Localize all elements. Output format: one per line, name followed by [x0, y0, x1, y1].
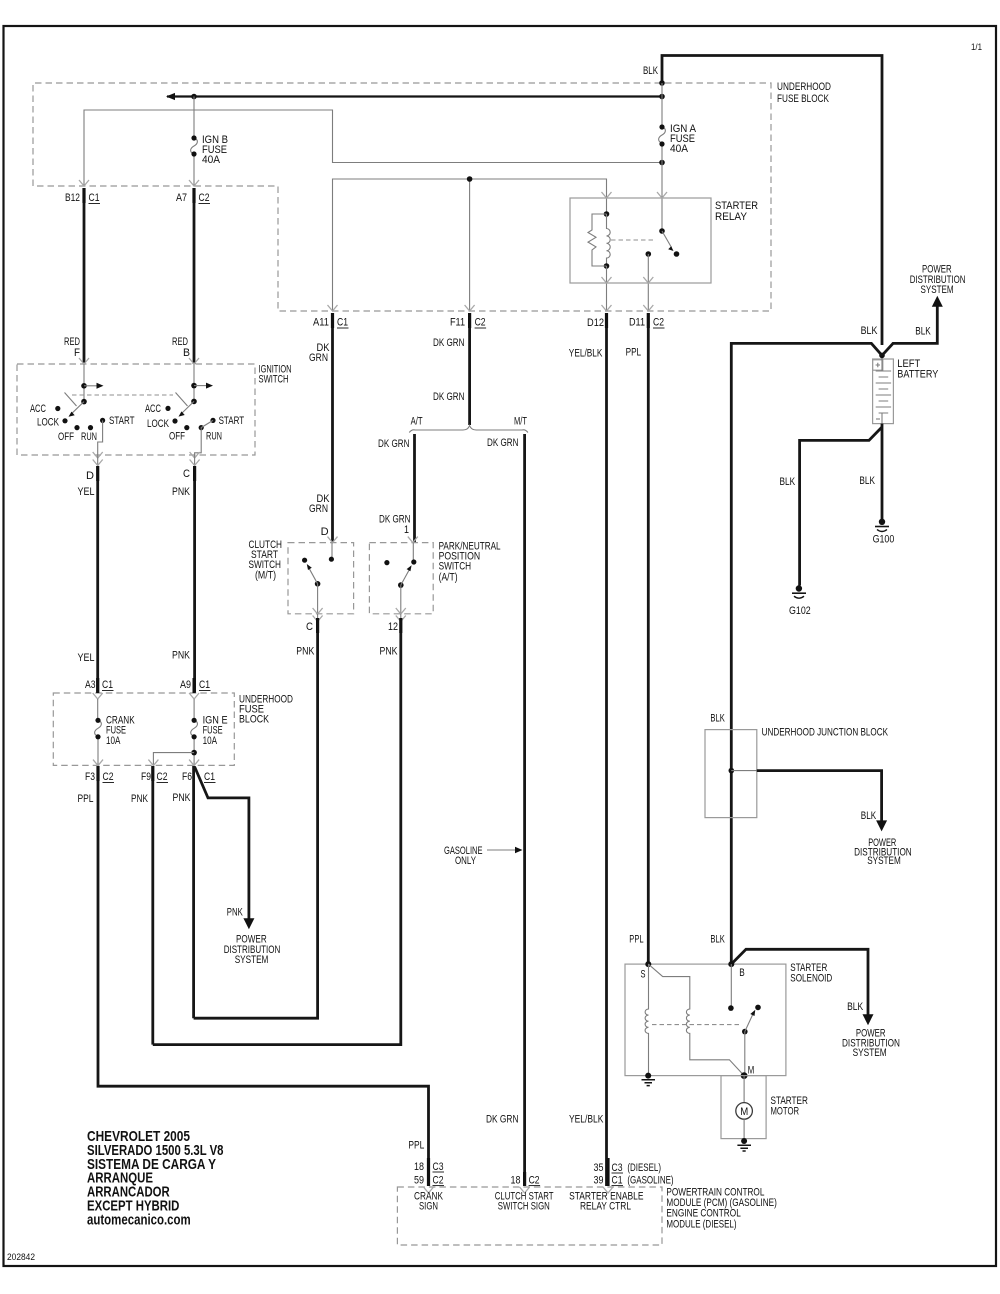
- node IGN A output junction: [659, 160, 665, 166]
- pole2 contact ACC: [165, 406, 170, 411]
- wire BLK battery negative branch to G102: [800, 427, 882, 586]
- chevron arrows A11 F11 at fuse block bottom edge: [328, 305, 475, 311]
- svg-text:(A/T): (A/T): [439, 572, 458, 584]
- pole2 START to RUN link and output wire to C: [195, 420, 213, 455]
- pole1 wiper blade to LOCK: [69, 402, 85, 417]
- ignition switch pole 1 input wire: [83, 364, 85, 402]
- svg-text:BLK: BLK: [643, 65, 658, 77]
- wire stub C clutch: [313, 614, 323, 622]
- wire DK GRN A/T branch to PNP switch: [413, 434, 416, 543]
- wire BLK junction block to solenoid B (diagonal): [731, 949, 873, 1025]
- label A/T: [411, 415, 423, 427]
- svg-text:ONLY: ONLY: [455, 855, 476, 867]
- solenoid ground at coil: [642, 1073, 656, 1086]
- label BLK (junction block feed): [710, 713, 725, 725]
- chevron out of PNP switch: [396, 608, 406, 614]
- chevrons into PCM: [424, 1187, 614, 1193]
- PNP switch input stub and contact: [411, 543, 416, 565]
- svg-text:D: D: [86, 470, 94, 482]
- wire BLK junction block to power distribution: [731, 771, 887, 832]
- svg-text:G102: G102: [789, 605, 811, 617]
- svg-text:LOCK: LOCK: [147, 418, 169, 430]
- svg-text:BLK: BLK: [710, 933, 725, 945]
- fuse IGN B 40A: [191, 97, 198, 187]
- svg-text:PNK: PNK: [227, 907, 243, 919]
- svg-text:A11: A11: [313, 317, 329, 329]
- connector C clutch: [306, 618, 318, 633]
- label PARK/NEUTRAL POSITION SWITCH (A/T): [439, 541, 501, 584]
- svg-text:40A: 40A: [202, 154, 221, 166]
- svg-text:C2: C2: [157, 771, 168, 783]
- svg-text:F6: F6: [182, 771, 192, 783]
- wire BLK battery to junction block (left horizontal): [731, 343, 882, 964]
- doc number 202842: [7, 1252, 35, 1263]
- label IGN E FUSE 10A: [203, 715, 228, 748]
- svg-text:A3: A3: [85, 679, 96, 691]
- fuse IGN A 40A: [659, 83, 666, 198]
- label YEL (upper): [78, 486, 95, 498]
- svg-text:BLK: BLK: [710, 713, 725, 725]
- label STARTER SOLENOID: [790, 962, 832, 985]
- starter motor ground: [737, 1138, 751, 1151]
- starter motor box: [721, 1076, 766, 1139]
- svg-text:A/T: A/T: [411, 415, 423, 427]
- node F11 branch junction: [467, 176, 473, 182]
- chevron arrows at fuse block bottom edge D12 D11: [602, 305, 654, 311]
- svg-text:C3: C3: [433, 1161, 444, 1173]
- svg-text:UNDERHOOD JUNCTION BLOCK: UNDERHOOD JUNCTION BLOCK: [762, 726, 889, 738]
- svg-text:B12: B12: [65, 192, 80, 204]
- svg-text:BLK: BLK: [780, 476, 796, 488]
- pole1 contact RUN: [88, 425, 93, 430]
- wire PPL D11 to starter solenoid S: [647, 328, 650, 964]
- label PNK (lower): [172, 650, 191, 662]
- svg-text:DK GRN: DK GRN: [487, 437, 519, 449]
- svg-text:PNK: PNK: [172, 486, 191, 498]
- wire PNK F6 down (to clutch C path): [192, 766, 195, 1018]
- svg-text:C2: C2: [653, 317, 664, 329]
- svg-text:RELAY: RELAY: [715, 211, 748, 223]
- svg-text:12: 12: [388, 621, 398, 633]
- chevron into clutch switch: [328, 537, 338, 543]
- svg-text:SYSTEM: SYSTEM: [853, 1047, 887, 1059]
- connector 12 PNP: [388, 618, 401, 633]
- label RED (left): [64, 336, 80, 348]
- connector F6 C1: [182, 771, 216, 783]
- label YEL (lower): [78, 652, 95, 664]
- wire RED A7 to ignition switch: [193, 203, 196, 364]
- svg-text:M/T: M/T: [514, 415, 527, 427]
- svg-text:M: M: [748, 1065, 755, 1077]
- svg-text:MOTOR: MOTOR: [771, 1106, 800, 1118]
- solenoid pull-in coil L1: [645, 964, 648, 1076]
- svg-text:BLK: BLK: [915, 325, 931, 337]
- svg-text:202842: 202842: [7, 1252, 35, 1263]
- svg-text:F: F: [74, 347, 80, 359]
- solenoid mechanical link dashed: [652, 1024, 741, 1026]
- wire relay coil feed (gray) A11/F11 branch: [333, 179, 607, 311]
- svg-text:SOLENOID: SOLENOID: [790, 973, 832, 985]
- svg-text:BATTERY: BATTERY: [897, 369, 939, 381]
- node junction block tap: [729, 768, 735, 774]
- pole2 labels ACC LOCK OFF RUN START: [145, 403, 244, 443]
- chevron arrows at relay pins: [602, 192, 668, 283]
- svg-text:PNK: PNK: [296, 646, 315, 658]
- wire stub D: [93, 455, 103, 466]
- svg-text:SWITCH SIGN: SWITCH SIGN: [498, 1201, 550, 1213]
- svg-text:SWITCH: SWITCH: [259, 374, 289, 386]
- connector F3 C2: [85, 766, 114, 783]
- svg-text:SYSTEM: SYSTEM: [235, 954, 269, 966]
- svg-text:PNK: PNK: [131, 793, 148, 805]
- label BLK (B arrow): [847, 1001, 864, 1013]
- wire bus to ignition switch feed (black, with left arrow): [166, 93, 662, 100]
- svg-text:10A: 10A: [106, 735, 121, 747]
- connector B12 C1: [65, 188, 100, 204]
- svg-text:40A: 40A: [670, 143, 689, 155]
- svg-text:ACC: ACC: [30, 403, 46, 415]
- svg-text:C: C: [306, 621, 313, 633]
- pole2 contact START: [210, 418, 215, 423]
- svg-text:PPL: PPL: [408, 1140, 424, 1152]
- relay switch pin wire (into box): [661, 198, 663, 231]
- svg-text:PPL: PPL: [629, 933, 643, 945]
- wire stub C: [190, 455, 200, 466]
- pole1 contact OFF: [74, 425, 79, 430]
- svg-text:YEL: YEL: [78, 486, 95, 498]
- svg-text:BLOCK: BLOCK: [239, 714, 270, 726]
- PNP switch common and blade: [398, 565, 412, 614]
- svg-text:C1: C1: [89, 192, 100, 204]
- wire PNK F6 branch to power distribution arrow: [195, 767, 255, 930]
- svg-text:YEL/BLK: YEL/BLK: [569, 347, 603, 359]
- node pole1 wiper pivot: [81, 399, 87, 405]
- svg-text:C: C: [183, 468, 190, 480]
- svg-text:A9: A9: [180, 679, 191, 691]
- svg-text:F3: F3: [85, 771, 95, 783]
- connector 18 C3 / 59 C2 (crank sign): [414, 1158, 444, 1187]
- svg-text:DK GRN: DK GRN: [433, 337, 465, 349]
- starter relay U1 box: [570, 198, 711, 283]
- svg-text:PNK: PNK: [173, 792, 192, 804]
- svg-text:C1: C1: [204, 771, 215, 783]
- pin F: [74, 347, 80, 359]
- svg-text:SYSTEM: SYSTEM: [921, 284, 954, 296]
- label IGNITION SWITCH: [259, 364, 292, 386]
- label UNDERHOOD FUSE BLOCK (lower): [239, 693, 293, 725]
- svg-text:DK GRN: DK GRN: [433, 391, 465, 403]
- label BLK (top feed): [643, 65, 658, 77]
- node pole1 feed dot with right arrow: [81, 383, 103, 389]
- relay coil output wire to D12: [606, 266, 608, 311]
- pole2 contact LOCK: [172, 418, 177, 423]
- connector A9 C1: [180, 678, 211, 693]
- connector F9 C2: [141, 766, 168, 783]
- wire BLK battery to power distribution (up arrow): [882, 296, 943, 356]
- connector F11 C2: [450, 313, 486, 329]
- svg-text:1/1: 1/1: [971, 42, 982, 53]
- label BLK (battery right): [915, 325, 931, 337]
- svg-text:PNK: PNK: [172, 650, 191, 662]
- wire BLK battery feed to fuse block (top): [662, 56, 882, 346]
- label BLK (G102 wire): [780, 476, 796, 488]
- clutch switch open contact: [302, 558, 307, 563]
- label DK GRN (M/T): [487, 437, 519, 449]
- label UNDERHOOD FUSE BLOCK (top): [777, 81, 831, 105]
- label DK GRN (F11 lower): [433, 391, 465, 403]
- label YEL/BLK (upper): [569, 347, 603, 359]
- svg-text:RUN: RUN: [206, 431, 222, 443]
- label IGN A FUSE 40A: [670, 123, 697, 155]
- svg-text:YEL: YEL: [78, 652, 95, 664]
- svg-text:BLK: BLK: [861, 810, 877, 822]
- svg-text:YEL/BLK: YEL/BLK: [569, 1113, 604, 1125]
- wire PNK C to A9: [193, 481, 196, 693]
- solenoid switch contacts: [728, 964, 761, 1076]
- svg-text:C2: C2: [475, 317, 486, 329]
- node solenoid M terminal: [741, 1065, 755, 1080]
- relay coil pin wire (into box): [606, 198, 608, 214]
- svg-text:PNK: PNK: [380, 646, 399, 658]
- svg-text:RUN: RUN: [81, 431, 97, 443]
- park/neutral position switch dashed box: [369, 543, 433, 614]
- pole2 wiper blade to LOCK: [179, 401, 195, 416]
- svg-text:DK GRN: DK GRN: [486, 1113, 519, 1125]
- pin 1 PNP switch: [404, 524, 409, 536]
- label BLK (battery left): [861, 325, 878, 337]
- chevron arrows into ignition switch F B: [79, 358, 199, 364]
- label DK GRN (A/T): [378, 438, 410, 450]
- svg-text:C2: C2: [199, 192, 210, 204]
- label DK GRN (A11 lower, two lines): [309, 493, 330, 515]
- svg-text:C2: C2: [433, 1175, 444, 1187]
- svg-text:OFF: OFF: [58, 431, 74, 443]
- clutch switch common and blade: [307, 564, 321, 614]
- label POWER DISTRIBUTION SYSTEM (pnk arrow): [224, 934, 281, 967]
- PCM dashed box: [397, 1187, 662, 1245]
- svg-text:ACC: ACC: [145, 403, 161, 415]
- ground G102: [789, 585, 811, 617]
- svg-text:(DIESEL): (DIESEL): [627, 1162, 661, 1174]
- node battery positive terminal: [879, 353, 885, 359]
- chevron out of clutch switch: [313, 608, 323, 614]
- label PPL (upper): [626, 347, 642, 359]
- label UNDERHOOD JUNCTION BLOCK: [762, 726, 889, 738]
- svg-text:C1: C1: [199, 679, 210, 691]
- connector A11 C1: [313, 313, 349, 329]
- ignition switch S1 dashed box: [17, 364, 255, 455]
- mechanical link between poles (dashed): [65, 393, 188, 407]
- underhood junction block box: [705, 730, 757, 818]
- svg-text:FUSE BLOCK: FUSE BLOCK: [777, 93, 829, 105]
- relay resistor (parallel): [588, 214, 607, 266]
- label PNK (upper): [172, 486, 191, 498]
- node IGN A column junction at y96.5: [659, 94, 665, 100]
- label POWER DISTRIBUTION SYSTEM (battery top): [910, 264, 966, 296]
- node pole2 wiper pivot: [191, 399, 197, 405]
- chevron arrows out of ignition switch D C: [93, 452, 200, 458]
- connector D: [86, 466, 98, 482]
- svg-text:C2: C2: [103, 771, 114, 783]
- node solenoid S terminal: [641, 961, 652, 980]
- svg-text:D12: D12: [587, 317, 604, 329]
- connector 35 C3 (DIESEL) / 39 C1 (GASOLINE): [594, 1158, 674, 1187]
- node pole2 feed dot with right arrow: [191, 383, 213, 389]
- connector D12: [587, 313, 607, 329]
- svg-text:D: D: [321, 526, 329, 538]
- label M/T: [514, 415, 527, 427]
- wire PNK PNP 12 down: [153, 633, 401, 1045]
- svg-text:OFF: OFF: [169, 431, 185, 443]
- svg-text:D11: D11: [629, 317, 645, 329]
- svg-text:RELAY CTRL: RELAY CTRL: [580, 1201, 631, 1213]
- svg-text:BLK: BLK: [859, 475, 875, 487]
- node IGN E output junction and F9 branch: [153, 750, 197, 766]
- connector 18 C2 (clutch start sign): [511, 1172, 541, 1187]
- svg-text:59: 59: [414, 1175, 424, 1187]
- label CLUTCH START SWITCH SIGN: [495, 1191, 554, 1213]
- relay coil (inductor): [604, 211, 611, 269]
- svg-text:39: 39: [594, 1175, 604, 1187]
- svg-text:SYSTEM: SYSTEM: [867, 855, 901, 867]
- svg-text:MODULE (DIESEL): MODULE (DIESEL): [666, 1218, 736, 1230]
- chevron arrows B12 A7 at fuse block lower edge: [79, 180, 199, 186]
- wire DK GRN M/T branch to PCM: [523, 434, 526, 1186]
- label POWER DISTRIBUTION SYSTEM (B arrow): [842, 1028, 900, 1059]
- svg-text:M: M: [740, 1106, 748, 1118]
- clutch start switch dashed box: [288, 543, 354, 614]
- label PNK (arrow): [227, 907, 243, 919]
- label PNK (PNP 12): [380, 646, 399, 658]
- svg-text:GRN: GRN: [309, 352, 328, 364]
- wire YEL/BLK D12 to PCM: [605, 328, 608, 1186]
- svg-text:18: 18: [511, 1175, 521, 1187]
- page number 1/1: [971, 42, 982, 53]
- starter motor M1: [736, 1076, 753, 1139]
- label LEFT BATTERY: [897, 358, 939, 381]
- wire PNK F9 down: [151, 781, 154, 1045]
- pole1 contact LOCK: [62, 418, 67, 423]
- label PPL (crank sign wire): [408, 1140, 424, 1152]
- ignition switch pole 2 input wire: [193, 364, 195, 401]
- label DK GRN (A11 upper, two lines): [309, 342, 330, 364]
- svg-text:1: 1: [404, 524, 409, 536]
- label CLUTCH START SWITCH (M/T): [249, 539, 283, 582]
- node IGN B top junction: [191, 94, 197, 100]
- title block: [87, 1128, 224, 1228]
- svg-text:S: S: [641, 969, 646, 981]
- svg-text:PPL: PPL: [78, 793, 94, 805]
- svg-text:C1: C1: [612, 1175, 623, 1187]
- label PNK (F9): [131, 793, 148, 805]
- relay mechanical link (dashed): [611, 239, 655, 241]
- underhood fuse block (top) dashed outline: [33, 83, 771, 311]
- split A/T M/T (thin fanout): [409, 426, 528, 433]
- svg-text:(M/T): (M/T): [255, 570, 276, 582]
- label PPL (solenoid S): [629, 933, 643, 945]
- label STARTER ENABLE RELAY CTRL: [569, 1191, 643, 1213]
- svg-text:BLK: BLK: [847, 1001, 864, 1013]
- clutch switch input stub and contact: [329, 543, 334, 562]
- label BLK (solenoid B feed): [710, 933, 725, 945]
- svg-text:F11: F11: [450, 317, 465, 329]
- wire BLK battery negative to G100: [881, 424, 884, 519]
- label POWER DISTRIBUTION SYSTEM (junction): [854, 837, 912, 867]
- PNP switch open contact: [384, 560, 389, 565]
- relay switch contacts: [646, 228, 680, 283]
- wire B12 feed branch (gray): [84, 110, 662, 186]
- svg-text:(GASOLINE): (GASOLINE): [627, 1175, 673, 1187]
- label STARTER MOTOR: [771, 1095, 808, 1118]
- svg-text:START: START: [109, 415, 135, 427]
- connector A3 C1: [85, 678, 114, 693]
- chevron into PNP switch: [408, 537, 418, 543]
- node solenoid B terminal: [728, 961, 744, 979]
- label BLK (junction arrow): [861, 810, 877, 822]
- label DK GRN (F11 upper): [433, 337, 465, 349]
- ground G100: [873, 519, 895, 546]
- label DK GRN (clutch start sign wire): [486, 1113, 519, 1125]
- chevrons out of lower fuse block F3 F9 F6: [93, 760, 199, 766]
- pole1 labels ACC LOCK OFF RUN START: [30, 403, 135, 443]
- label POWERTRAIN CONTROL MODULE (PCM) (GASOLINE) ENGINE CONTROL MODULE (DIESEL): [666, 1187, 776, 1231]
- svg-text:10A: 10A: [203, 735, 218, 747]
- wire DK GRN A11 to clutch start switch: [331, 328, 334, 543]
- svg-text:automecanico.com: automecanico.com: [87, 1211, 191, 1228]
- wire stub 12 PNP: [396, 614, 406, 622]
- svg-text:35: 35: [594, 1162, 604, 1174]
- node BLK entry on dashed edge: [659, 80, 665, 86]
- label PPL (F3): [78, 793, 94, 805]
- label DK GRN (above pin 1): [379, 514, 411, 526]
- label CRANK FUSE 10A: [106, 715, 135, 748]
- label BLK (G100 wire): [859, 475, 875, 487]
- svg-text:DK GRN: DK GRN: [378, 438, 410, 450]
- svg-text:PPL: PPL: [626, 347, 642, 359]
- label PNK (F6): [173, 792, 192, 804]
- pole1 contact START: [100, 418, 105, 423]
- svg-text:GRN: GRN: [309, 503, 328, 515]
- svg-text:G100: G100: [873, 534, 895, 546]
- label IGN B FUSE 40A: [202, 134, 228, 166]
- label YEL/BLK (starter enable wire): [569, 1113, 604, 1125]
- svg-text:C1: C1: [102, 679, 113, 691]
- svg-text:START: START: [219, 415, 245, 427]
- wire RED B12 to ignition switch: [83, 203, 86, 364]
- solenoid hold-in coil L2: [648, 964, 744, 1076]
- relay switch output wire to D11: [647, 283, 649, 311]
- connector D11 C2: [629, 313, 665, 329]
- fuse CRANK 10A: [95, 699, 102, 765]
- svg-text:BLK: BLK: [861, 325, 878, 337]
- svg-text:UNDERHOOD: UNDERHOOD: [777, 81, 831, 93]
- chevrons into lower fuse block A3 A9: [93, 693, 199, 699]
- label GASOLINE ONLY with arrow: [444, 845, 523, 867]
- svg-text:B: B: [739, 967, 745, 979]
- starter solenoid box: [625, 964, 786, 1076]
- wire PNK clutch C down: [194, 633, 318, 1018]
- pin B: [183, 347, 190, 359]
- svg-text:C2: C2: [529, 1175, 540, 1187]
- label STARTER RELAY: [715, 200, 758, 223]
- svg-text:LOCK: LOCK: [37, 417, 59, 429]
- connector C: [183, 466, 195, 481]
- pole2 contact RUN: [199, 425, 204, 430]
- svg-text:A7: A7: [176, 192, 187, 204]
- svg-text:18: 18: [414, 1161, 424, 1173]
- pole1 START output wire to D: [98, 420, 103, 455]
- label PNK (clutch C): [296, 646, 315, 658]
